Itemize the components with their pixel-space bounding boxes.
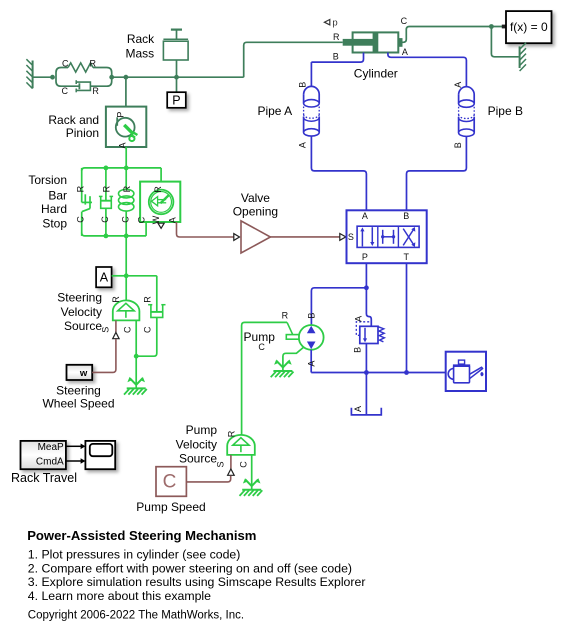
torsion damper (rotational damper) (99, 168, 113, 236)
svg-text:A: A (100, 271, 109, 285)
svg-text:Pump: Pump (186, 423, 218, 437)
svg-text:R: R (226, 430, 236, 437)
svg-text:w: w (79, 368, 88, 379)
port triangle S pump source (228, 469, 235, 475)
port square f(x) input (502, 25, 506, 29)
block Rack and Pinion (106, 107, 146, 147)
wire to rotational ground (135, 356, 137, 388)
label C torsion damper (100, 216, 110, 223)
label Pump (244, 330, 276, 344)
svg-text:A: A (402, 47, 408, 57)
label Rack Mass (126, 32, 156, 61)
mass block Rack Mass (163, 30, 188, 60)
svg-text:Torsion: Torsion (28, 173, 67, 187)
wire torsion top rail (82, 168, 161, 171)
block Steering Velocity Source dome (113, 300, 140, 320)
relief valve (pressure relief) (356, 288, 384, 373)
spring C-R (rack spring) top branch (56, 63, 112, 86)
wire pump speed to S (186, 476, 230, 482)
label A pipe A (298, 142, 308, 148)
port triangle gain input (234, 234, 240, 241)
svg-text:B: B (298, 82, 308, 88)
svg-text:C: C (137, 216, 147, 223)
svg-text:B: B (352, 347, 362, 353)
svg-text:C: C (75, 216, 85, 223)
label C sensor (137, 216, 147, 223)
copyright (28, 609, 244, 621)
svg-text:B: B (333, 52, 339, 62)
wire pipe B to valve B (407, 136, 467, 210)
label B pump (306, 313, 316, 319)
svg-text:Hard: Hard (41, 202, 67, 216)
label R steering damper (142, 296, 152, 303)
label R pump source (226, 430, 236, 437)
svg-text:C: C (123, 326, 133, 333)
wire sensor R from rail (160, 168, 162, 182)
svg-text:Pipe A: Pipe A (257, 104, 292, 118)
svg-text:Steering: Steering (57, 291, 102, 305)
cylinder body (hydraulic cylinder) (343, 32, 403, 52)
svg-text:P: P (116, 112, 126, 118)
svg-text:Wheel Speed: Wheel Speed (42, 397, 114, 411)
node P junction (364, 285, 369, 290)
maroon stub S pump source (230, 455, 232, 469)
svg-text:R: R (122, 185, 132, 192)
wire cylinder C to solver node (403, 27, 503, 43)
pipe A block (304, 86, 320, 136)
svg-text:S: S (216, 461, 226, 467)
label Steering Velocity Source (57, 291, 102, 333)
svg-text:C: C (100, 216, 110, 223)
wire main rack axis (112, 76, 244, 78)
svg-text:C: C (120, 216, 130, 223)
wire valve P down (365, 263, 367, 288)
svg-text:Rack and: Rack and (48, 113, 99, 127)
label B pipe B (453, 142, 463, 148)
item 1 (28, 547, 241, 561)
svg-text:A: A (307, 361, 317, 367)
steering damper (rotational) (148, 276, 165, 318)
svg-text:B: B (306, 313, 316, 319)
wire junction to steering damper (126, 275, 157, 277)
svg-text:T: T (403, 252, 409, 262)
block Pump Speed constant C (156, 467, 186, 497)
label R spring (90, 59, 97, 69)
wire sensor A to gain (177, 222, 234, 237)
label C steering damper (142, 326, 152, 333)
svg-text:C: C (401, 16, 408, 26)
svg-text:C: C (142, 326, 152, 333)
svg-text:A: A (353, 406, 363, 412)
svg-text:R: R (153, 186, 163, 193)
svg-text:2. Compare effort with power s: 2. Compare effort with power steering on… (28, 561, 352, 575)
signal arrow CmdA (66, 458, 86, 464)
label Rack and Pinion (48, 113, 99, 140)
label R sensor (153, 186, 163, 193)
node junction left (50, 75, 55, 80)
svg-text:C: C (62, 59, 69, 69)
label S valve (348, 232, 354, 242)
block f(x) = 0 solver configuration (506, 11, 552, 43)
translational reference wall right (520, 43, 526, 71)
node bottom rail mid (124, 234, 129, 239)
wire torsion to A node (125, 236, 127, 276)
svg-text:3. Explore simulation results: 3. Explore simulation results using Sims… (28, 575, 366, 589)
svg-text:R: R (101, 185, 111, 192)
svg-text:Velocity: Velocity (61, 305, 102, 319)
wire rack-pinion A down (125, 147, 127, 168)
hard stop (rotational hard stop) (82, 168, 92, 236)
node torsion rail left (104, 166, 109, 171)
wire sensor C down (145, 222, 147, 236)
rotational reference ground pump (271, 359, 294, 377)
label R torsion spring (122, 185, 132, 192)
torsion spring coil (119, 168, 134, 236)
wire pump A down (310, 350, 312, 373)
label A rack-pinion (117, 143, 127, 149)
svg-text:Rack Travel: Rack Travel (11, 471, 77, 485)
gain triangle Valve Opening (241, 221, 270, 253)
svg-text:P: P (362, 252, 368, 262)
svg-text:P: P (172, 94, 180, 108)
svg-text:S: S (348, 232, 354, 242)
svg-text:A: A (453, 82, 463, 88)
block Pump Velocity Source dome (227, 435, 255, 455)
block custom hydraulic fluid (oil can) (446, 352, 486, 391)
wire steering damper C (136, 317, 157, 356)
rotational reference ground steering (124, 377, 147, 395)
label B cylinder (333, 52, 339, 62)
node rail T junction (404, 370, 409, 375)
wire valve T down (406, 263, 408, 372)
wire bottom hydraulic rail (311, 372, 446, 374)
wire to rack mass (176, 60, 178, 77)
svg-text:R: R (282, 311, 289, 321)
node junction rack-pinion tap (124, 75, 129, 80)
label C hard stop (75, 216, 85, 223)
wire source C down (135, 320, 137, 356)
svg-text:Rack: Rack (127, 32, 155, 46)
label R hard stop (75, 185, 85, 192)
svg-text:A: A (354, 316, 364, 322)
label C torsion spring (120, 216, 130, 223)
svg-text:C: C (238, 461, 248, 468)
wire wall to spring-damper (33, 76, 53, 78)
item 2 (28, 561, 352, 575)
wire rack to cylinder rod (244, 42, 343, 77)
label C spring (62, 59, 69, 69)
port triangle W unconnected (158, 223, 164, 228)
svg-text:Source: Source (179, 452, 217, 466)
label R torsion damper (101, 185, 111, 192)
label A valve (362, 211, 368, 221)
svg-text:MeaP: MeaP (38, 442, 64, 453)
svg-text:Stop: Stop (42, 217, 67, 231)
svg-text:Source: Source (64, 319, 102, 333)
wire cylinder A to pipe B (388, 53, 467, 87)
label Pump Velocity Source (176, 423, 218, 465)
svg-text:Power-Assisted Steering Mechan: Power-Assisted Steering Mechanism (27, 528, 256, 543)
node junction right of spring-damper (109, 75, 114, 80)
block Pump (hydraulic pump) (299, 325, 324, 350)
svg-text:Opening: Opening (233, 205, 278, 219)
node junction rack mass tap (174, 75, 179, 80)
block 4-way directional valve (347, 210, 427, 263)
pump shaft R port (242, 322, 299, 435)
svg-text:A: A (298, 142, 308, 148)
label Pipe A (257, 104, 292, 118)
label A cylinder (402, 47, 408, 57)
svg-text:B: B (453, 142, 463, 148)
label R steering source (111, 296, 121, 303)
label C steering source (123, 326, 133, 333)
node A junction (124, 273, 129, 278)
svg-text:R: R (111, 296, 121, 303)
label Steering Wheel Speed (42, 384, 114, 411)
label A relief valve (354, 316, 364, 322)
item 3 (28, 575, 366, 589)
svg-text:Cylinder: Cylinder (354, 66, 398, 80)
label Pump Speed (136, 500, 205, 514)
label B valve (403, 211, 409, 221)
tank (hydraulic reference) (351, 373, 381, 415)
svg-text:Copyright 2006-2022 The MathWo: Copyright 2006-2022 The MathWorks, Inc. (28, 609, 244, 621)
wire pipe A top (310, 62, 312, 86)
label W sensor (151, 215, 161, 224)
port triangle S steering (113, 332, 119, 338)
block Scope (85, 441, 115, 469)
label A sensor (168, 217, 178, 223)
label B relief valve (352, 347, 362, 353)
svg-text:R: R (75, 185, 85, 192)
wire cylinder B to pipe A (311, 53, 363, 63)
translational reference wall left (26, 59, 32, 88)
svg-text:CmdA: CmdA (36, 457, 64, 468)
node torsion rail mid (124, 166, 129, 171)
label S steering source (100, 327, 110, 333)
svg-text:Velocity: Velocity (176, 437, 217, 451)
svg-text:R: R (142, 296, 152, 303)
svg-text:f(x) = 0: f(x) = 0 (510, 20, 548, 34)
port triangle valve S (340, 234, 346, 241)
label P rack-pinion (116, 112, 126, 118)
label C cylinder (401, 16, 408, 26)
svg-text:p: p (332, 18, 337, 29)
wire pipe A to valve A (311, 136, 366, 210)
label Pipe B (488, 104, 523, 118)
wire to P sensor tag (176, 77, 178, 93)
svg-text:R: R (90, 59, 97, 69)
block Rack Travel subsystem (21, 441, 66, 469)
svg-text:C: C (163, 472, 177, 493)
svg-text:1. Plot pressures in cylinder: 1. Plot pressures in cylinder (see code) (28, 547, 241, 561)
wire pump C to ground (283, 347, 304, 371)
wire pump source C to ground (251, 455, 253, 490)
signal arrow MeaP (66, 444, 86, 450)
label T valve (403, 252, 409, 262)
svg-text:Steering: Steering (56, 384, 101, 398)
node bottom rail left (104, 234, 109, 239)
item 4 (28, 589, 211, 603)
wire gain to valve S (270, 236, 339, 238)
rotational reference ground pump source (240, 478, 263, 496)
label C pump (258, 342, 265, 352)
svg-text:B: B (403, 211, 409, 221)
label p logging marker (324, 18, 337, 29)
label Cylinder (354, 66, 398, 80)
wire to rack and pinion P (125, 77, 127, 106)
svg-text:C: C (62, 86, 69, 96)
block rotational motion sensor (gauge) (140, 182, 180, 222)
svg-text:Pump Speed: Pump Speed (136, 500, 205, 514)
svg-text:Pump: Pump (244, 330, 276, 344)
wire P junction to pump B (311, 288, 366, 325)
label S pump source (216, 461, 226, 467)
svg-text:Bar: Bar (48, 189, 67, 203)
node steering ground junction (134, 354, 139, 359)
block P connection label (167, 92, 186, 108)
pipe B block (459, 87, 475, 137)
label R pump (282, 311, 289, 321)
label Valve Opening (233, 191, 278, 219)
label B pipe A (298, 82, 308, 88)
label R damper (92, 86, 99, 96)
label Torsion Bar Hard Stop (28, 173, 67, 230)
svg-text:R: R (92, 86, 99, 96)
label A tank (353, 406, 363, 412)
svg-text:R: R (333, 32, 340, 42)
maroon stub S steering (115, 320, 117, 332)
label R cylinder (333, 32, 340, 42)
label Rack Travel (11, 471, 77, 485)
wire to right wall (491, 27, 518, 57)
label A pump (307, 361, 317, 367)
wire torsion bottom rail (82, 233, 146, 236)
svg-text:A: A (362, 211, 368, 221)
wire junction to source R (125, 276, 127, 301)
wire A label to junction (112, 275, 127, 277)
label C pump source (238, 461, 248, 468)
svg-text:Valve: Valve (241, 191, 270, 205)
svg-text:Mass: Mass (126, 47, 155, 61)
node rail tank junction (364, 370, 369, 375)
svg-text:4. Learn more about this examp: 4. Learn more about this example (28, 589, 211, 603)
svg-text:Pinion: Pinion (66, 126, 99, 140)
title Power-Assisted Steering Mechanism (27, 528, 256, 543)
node junction solver (489, 24, 494, 29)
damper C-R (rack damper) bottom branch (76, 80, 90, 92)
label P valve (362, 252, 368, 262)
svg-text:Pipe B: Pipe B (488, 104, 523, 118)
wire w to S (92, 339, 116, 372)
label A pipe B (453, 82, 463, 88)
label C damper (62, 86, 69, 96)
block A connection label (96, 267, 112, 287)
block w (steering wheel speed source) (67, 365, 93, 380)
